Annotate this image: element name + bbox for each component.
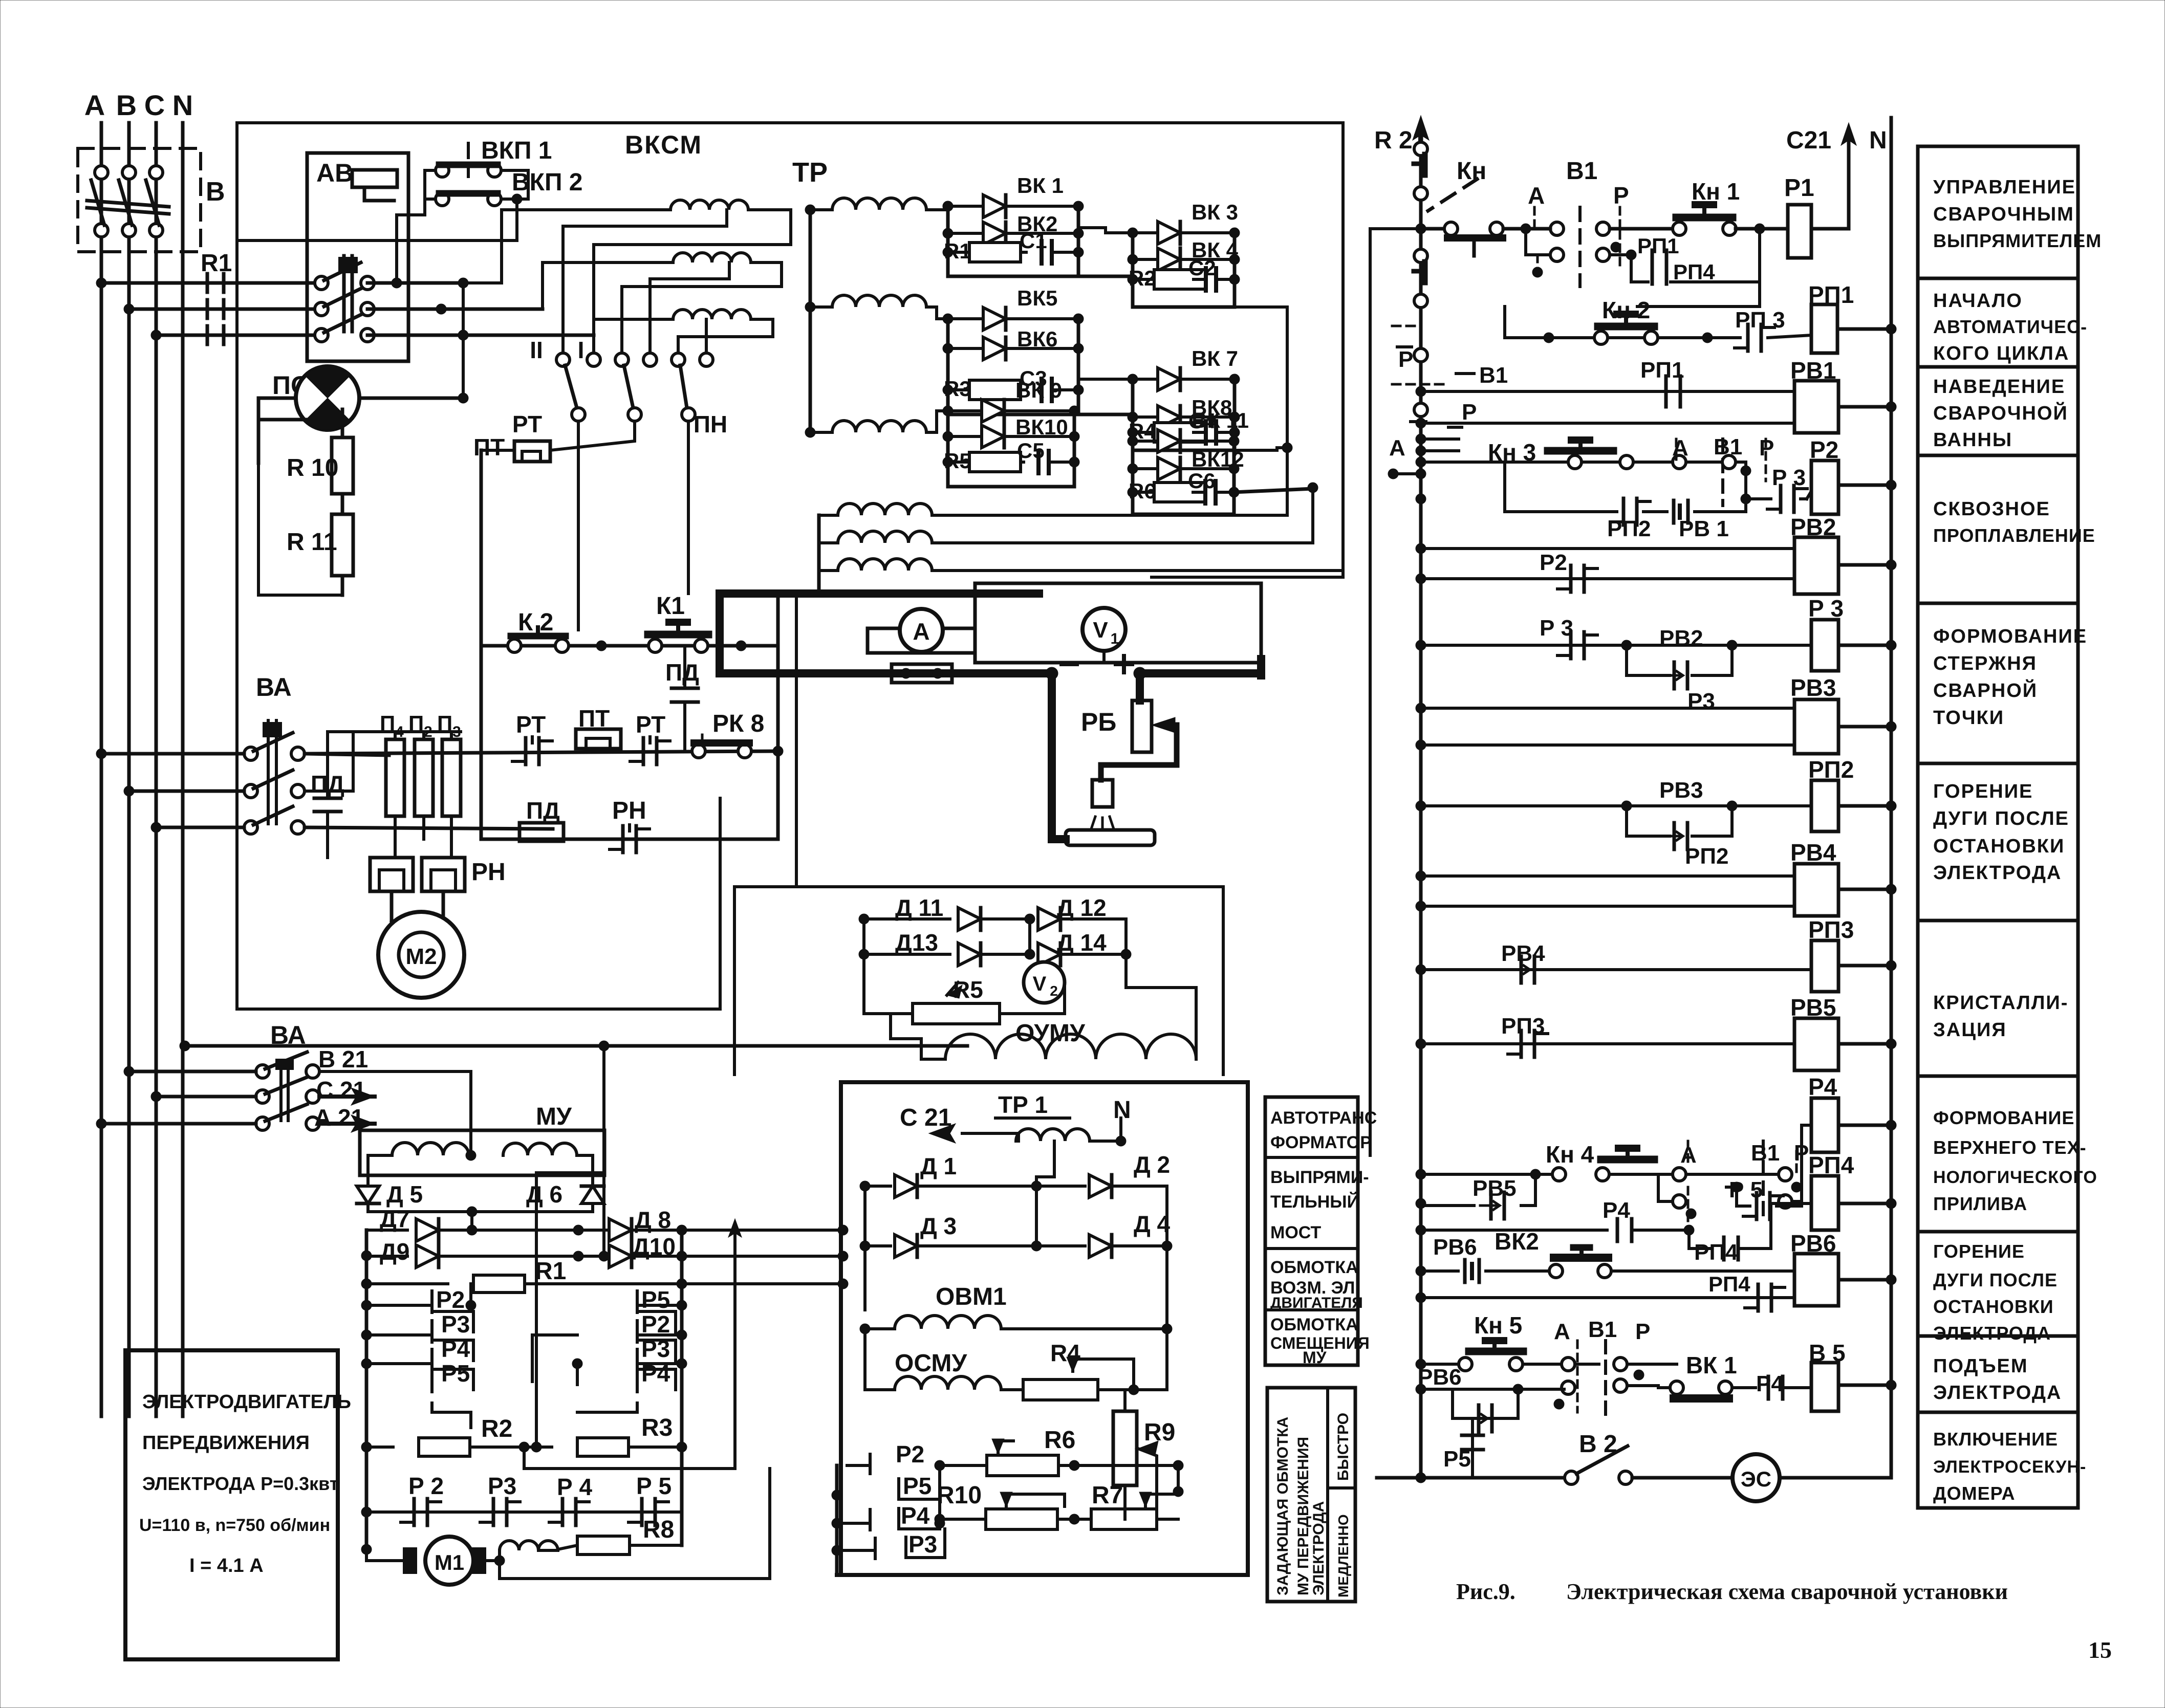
wire B21 to MU tap [319, 1070, 471, 1073]
rung9 to bus [1886, 884, 1896, 894]
wire P1 to N arrow [1811, 227, 1849, 231]
svg-text:R 11: R 11 [287, 529, 337, 556]
wire fuse feed [386, 730, 461, 733]
switch B linkage [87, 201, 169, 207]
wire aux 1 sweep [932, 448, 1287, 515]
contact P lower [1596, 248, 1610, 261]
button Kn2 [1544, 333, 1554, 343]
diode D7 [366, 1229, 407, 1232]
wire phase B vertical [127, 123, 131, 1416]
relay coil P1 [1788, 205, 1811, 258]
relay coil RV1 [1794, 381, 1838, 433]
contact RP2a cap [1622, 498, 1626, 525]
resistor R7 [1091, 1509, 1157, 1529]
switch VA2 poles [256, 1065, 269, 1078]
button VK1 [1670, 1381, 1683, 1394]
resistor R10b [940, 1518, 987, 1521]
contact K1 [648, 639, 662, 652]
svg-text:R3: R3 [641, 1414, 673, 1441]
svg-text:РВ5: РВ5 [1473, 1176, 1517, 1201]
svg-text:А: А [1389, 435, 1405, 461]
switch VKP1 [436, 164, 449, 177]
svg-text:Д 1: Д 1 [920, 1153, 957, 1179]
svg-text:УПРАВЛЕНИЕ: УПРАВЛЕНИЕ [1933, 177, 2076, 198]
svg-text:Р3: Р3 [441, 1311, 470, 1338]
svg-text:ВК 9: ВК 9 [1015, 378, 1062, 402]
svg-text:РВ6: РВ6 [1433, 1235, 1477, 1260]
wire rails ВК 3 [1131, 233, 1135, 307]
bus 1 from phase A [96, 278, 106, 288]
wire aux 2 sweep [932, 487, 1313, 543]
wire motor leads [390, 891, 394, 921]
svg-text:Р 3: Р 3 [1808, 595, 1844, 622]
selector contacts [556, 353, 570, 366]
svg-text:А: А [84, 89, 105, 121]
svg-text:ВК 11: ВК 11 [1192, 408, 1249, 432]
svg-text:Р1: Р1 [1784, 174, 1814, 202]
svg-text:КОГО ЦИКЛА: КОГО ЦИКЛА [1933, 343, 2069, 364]
diode D12 [1038, 908, 1060, 930]
contact RP4b cap [1757, 1284, 1760, 1311]
svg-text:R8: R8 [643, 1516, 674, 1543]
svg-text:ВК 3: ВК 3 [1192, 200, 1238, 224]
rung4 wire [1416, 457, 1426, 467]
resistor R3 [524, 1446, 552, 1449]
svg-text:N: N [1869, 127, 1887, 154]
svg-text:РБ: РБ [1081, 708, 1116, 736]
svg-text:ФОРМАТОР: ФОРМАТОР [1270, 1133, 1372, 1152]
svg-text:ВАННЫ: ВАННЫ [1933, 429, 2012, 451]
wire R9 bottom [1123, 1485, 1127, 1519]
relay coil RV4 [1794, 864, 1838, 916]
svg-text:ВКЛЮЧЕНИЕ: ВКЛЮЧЕНИЕ [1933, 1429, 2058, 1450]
rung11 wire [1416, 1039, 1426, 1049]
diode D6 [581, 1186, 604, 1203]
resistor R1b [366, 1282, 448, 1285]
diode ВК 4 [1133, 258, 1158, 261]
voltmeter V1 [1082, 608, 1125, 651]
svg-text:II: II [530, 337, 543, 363]
svg-text:ЗАДАЮЩАЯ ОБМОТКА: ЗАДАЮЩАЯ ОБМОТКА [1274, 1417, 1291, 1595]
potentiometer R4 [1023, 1379, 1098, 1400]
wire phase A vertical [100, 123, 103, 1416]
bold plus bus [1134, 667, 1146, 680]
svg-text:R6: R6 [1044, 1427, 1075, 1454]
voltmeter V2 [1024, 962, 1065, 1003]
wire to P1 coil [1755, 224, 1765, 234]
svg-text:ДУГИ ПОСЛЕ: ДУГИ ПОСЛЕ [1933, 808, 2069, 829]
rung13 line [1416, 1225, 1426, 1235]
svg-text:2: 2 [1050, 983, 1058, 999]
wire VK interconnects [1078, 275, 1133, 278]
wire D rails [862, 919, 865, 1014]
potentiometer R5 [864, 1012, 911, 1015]
svg-text:ПД: ПД [526, 797, 560, 824]
svg-text:АВТОТРАНС: АВТОТРАНС [1270, 1108, 1377, 1128]
TP aux winding 3 [838, 559, 932, 571]
wire primary 3 taps [678, 319, 773, 353]
relay coil P3 [1811, 620, 1838, 671]
svg-text:15: 15 [2088, 1637, 2112, 1663]
diode ВК 3 [1133, 231, 1158, 234]
diode ВК6 [948, 347, 983, 350]
svg-text:Д 6: Д 6 [526, 1181, 562, 1208]
TP primary winding 3 [673, 310, 751, 319]
P-bar node marker [1392, 325, 1417, 327]
fuse P1 [386, 739, 404, 816]
contact RK8 [692, 744, 705, 758]
relay coil RP2 [1811, 780, 1838, 831]
wire lamp right [359, 397, 463, 400]
svg-text:Р5: Р5 [641, 1286, 670, 1313]
svg-text:ФОРМОВАНИЕ: ФОРМОВАНИЕ [1933, 626, 2087, 647]
TP secondary winding 1 [832, 198, 926, 210]
svg-text:А: А [1554, 1319, 1570, 1344]
wire R2 junction down [524, 1447, 735, 1469]
svg-text:Д 14: Д 14 [1057, 929, 1107, 956]
bus 3 from phase C [151, 330, 161, 340]
svg-text:ПТ: ПТ [473, 434, 505, 461]
svg-text:ОБМОТКА: ОБМОТКА [1270, 1258, 1358, 1277]
wire K row3 [481, 838, 778, 841]
workpiece [1066, 830, 1155, 845]
svg-text:Кн: Кн [1457, 158, 1486, 185]
contact A1 lower [1526, 229, 1550, 255]
svg-text:Д7: Д7 [380, 1206, 409, 1232]
wire RP4 branch [1637, 305, 1760, 308]
svg-text:МУ: МУ [536, 1103, 572, 1130]
svg-text:ОВМ1: ОВМ1 [936, 1283, 1007, 1310]
contact stack left brackets [430, 1291, 434, 1312]
bold work lead [1052, 673, 1066, 839]
svg-text:ТР: ТР [792, 157, 828, 188]
text column outer box [1918, 146, 2078, 1508]
svg-text:К 2: К 2 [518, 609, 553, 636]
ladder left rail R21 line [1419, 128, 1423, 1478]
svg-text:Р 5: Р 5 [636, 1473, 672, 1499]
svg-text:V: V [1093, 618, 1108, 643]
arrow C21 [319, 1094, 375, 1099]
OVM1 winding [865, 1327, 895, 1330]
wire VK right risers [1233, 279, 1237, 307]
svg-text:СВАРНОЙ: СВАРНОЙ [1933, 678, 2038, 702]
svg-text:R2: R2 [481, 1415, 512, 1442]
rung11 to bus [1886, 1039, 1896, 1049]
MU winding right [503, 1143, 577, 1155]
svg-text:ПРИЛИВА: ПРИЛИВА [1933, 1193, 2027, 1214]
svg-text:С 21: С 21 [900, 1104, 951, 1131]
wire neutral N vertical [181, 123, 185, 1416]
wire stack rows left [366, 1304, 432, 1307]
rung8 to bus [1886, 801, 1896, 811]
wire riser to primary 2 [441, 262, 673, 309]
contact P4 cap [561, 1499, 565, 1525]
svg-text:РВ3: РВ3 [1659, 778, 1703, 803]
diode D5 [357, 1186, 379, 1203]
button Kn1 [1673, 222, 1686, 235]
svg-text:БЫСТРО: БЫСТРО [1335, 1413, 1352, 1481]
svg-text:Р3: Р3 [908, 1531, 937, 1558]
svg-text:Кн 4: Кн 4 [1546, 1141, 1594, 1168]
svg-text:А: А [1528, 182, 1545, 209]
svg-text:МУ: МУ [1303, 1348, 1327, 1367]
resistor R6 [940, 1464, 987, 1467]
VA2 bus line [180, 1041, 190, 1051]
wire riser to primary 1 [463, 210, 670, 283]
rung4 to bus [1886, 480, 1896, 490]
relay coil P2 [1811, 461, 1838, 514]
diode D10 [578, 1255, 609, 1258]
wire VA bus riser right [602, 1046, 605, 1256]
wire K right riser [776, 594, 780, 839]
wire VA1 out row3 [305, 827, 553, 829]
svg-text:Р2: Р2 [896, 1441, 924, 1468]
rung7 upper wire [1416, 703, 1426, 713]
contact P2 cap [413, 1499, 416, 1525]
button Kn3 [1568, 455, 1582, 469]
contact P5a cap [1755, 1193, 1759, 1219]
M1 winding [498, 1550, 501, 1561]
AV contactor poles [315, 276, 328, 290]
contact RP1b [1664, 376, 1668, 407]
diode D14 [1038, 943, 1060, 966]
rung5 upper wire [1416, 543, 1426, 554]
wire R4 to R9 [1134, 1388, 1167, 1391]
svg-text:РП2: РП2 [1685, 844, 1728, 869]
VKSM box outline [237, 123, 1343, 788]
svg-text:РН: РН [612, 797, 646, 824]
svg-text:М2: М2 [405, 944, 437, 969]
switch B2 [1565, 1471, 1578, 1484]
svg-text:ЭЛЕКТРОСЕКУН-: ЭЛЕКТРОСЕКУН- [1933, 1457, 2086, 1477]
D11 box outline [734, 887, 1223, 1075]
R10 box enclosure wires [258, 463, 342, 595]
bold weld bus top [720, 589, 1039, 598]
text column dividers [1918, 277, 2078, 280]
rung10 wire [1416, 965, 1426, 975]
svg-text:РП4: РП4 [1694, 1240, 1738, 1265]
resistor R11 [332, 514, 353, 576]
switch B dashed enclosure [78, 148, 201, 252]
svg-text:В: В [116, 89, 137, 121]
wire rails ВК 9 [946, 411, 950, 487]
svg-text:Р 2: Р 2 [408, 1473, 444, 1499]
svg-text:С2: С2 [1188, 256, 1216, 280]
contact RV6b loop [1453, 1389, 1518, 1418]
vertical annotation box [1267, 1388, 1355, 1602]
thermal PT box [514, 441, 550, 462]
wire P5b drop [1471, 1418, 1474, 1478]
motor M2 [378, 912, 464, 998]
svg-text:Р2: Р2 [1540, 550, 1567, 575]
svg-text:РН: РН [471, 859, 506, 886]
svg-text:КРИСТАЛЛИ-: КРИСТАЛЛИ- [1933, 992, 2068, 1014]
wire VKP left riser [423, 170, 426, 199]
wire bridge to center box [682, 1229, 841, 1232]
svg-text:ПОДЪЕМ: ПОДЪЕМ [1933, 1355, 2028, 1377]
AV box [307, 153, 408, 361]
svg-text:РП4: РП4 [1708, 1272, 1750, 1296]
wire aux left rail [819, 514, 838, 517]
wire secondary 2 to VK5 [926, 307, 948, 319]
rung6 to bus [1886, 640, 1896, 650]
svg-text:ВЕРХНЕГО ТЕХ-: ВЕРХНЕГО ТЕХ- [1933, 1137, 2087, 1158]
svg-text:РП1: РП1 [1637, 234, 1679, 258]
svg-text:I = 4.1 А: I = 4.1 А [189, 1555, 264, 1576]
svg-text:РТ: РТ [516, 711, 546, 738]
svg-text:С: С [144, 89, 165, 121]
svg-text:К1: К1 [656, 593, 685, 620]
wire V2 connections [1023, 1012, 1065, 1015]
contact RP3a cap [1746, 324, 1750, 351]
rung4 lower branch [1416, 494, 1426, 504]
annotation stack box [1265, 1097, 1358, 1365]
svg-text:В: В [206, 177, 225, 207]
ladder inner frame wire [1369, 229, 1372, 1155]
MU box [360, 1130, 604, 1175]
rung3 lower wire [1416, 418, 1426, 428]
TR1 winding [1016, 1129, 1090, 1141]
rung15 to bus [1886, 1380, 1896, 1390]
diode ВК 1 [948, 205, 983, 208]
svg-text:ВК10: ВК10 [1015, 415, 1068, 439]
contact Kn [1444, 222, 1458, 235]
rung2 wire [1505, 336, 1740, 339]
relay coil RV2 [1794, 537, 1838, 594]
svg-text:ДВИГАТЕЛЯ: ДВИГАТЕЛЯ [1270, 1295, 1363, 1311]
wire box right edge [1246, 1082, 1250, 1575]
resistor R10 [332, 437, 353, 494]
svg-text:ТОЧКИ: ТОЧКИ [1933, 707, 2004, 729]
A node circle [1414, 403, 1427, 417]
svg-text:ПН: ПН [694, 411, 727, 437]
svg-text:Р 4: Р 4 [557, 1474, 592, 1500]
svg-text:ВКСМ: ВКСМ [625, 130, 702, 159]
wire D5 D6 join [366, 1203, 370, 1212]
svg-text:В 21: В 21 [318, 1046, 368, 1072]
relay coil RP1 [1811, 304, 1837, 353]
wire rails ВК 11 [1131, 441, 1135, 514]
svg-text:РТ: РТ [512, 411, 542, 437]
wire rails ВК 7 [1131, 379, 1135, 450]
svg-text:ПЕРЕДВИЖЕНИЯ: ПЕРЕДВИЖЕНИЯ [142, 1432, 310, 1454]
relay coil V5 [1811, 1363, 1838, 1411]
svg-text:Р5: Р5 [903, 1473, 932, 1499]
svg-text:Д 12: Д 12 [1057, 894, 1107, 921]
wire VKP2 to bus [462, 283, 465, 398]
svg-text:ВА: ВА [270, 1021, 306, 1049]
electrode [1092, 780, 1113, 807]
svg-text:Электрическая схема сварочной: Электрическая схема сварочной установки [1566, 1579, 2008, 1604]
ammeter A wings [868, 628, 975, 653]
svg-text:Д9: Д9 [380, 1238, 409, 1265]
contact RV3a parallel [1621, 801, 1632, 811]
contact P3 cap [492, 1499, 495, 1525]
wire VA1 feeds [96, 749, 106, 759]
rung10 to bus [1886, 960, 1896, 971]
svg-text:ОСТАНОВКИ: ОСТАНОВКИ [1933, 836, 2065, 857]
TP secondary winding 2 [832, 295, 926, 307]
svg-text:РК 8: РК 8 [712, 710, 764, 737]
rung1 wire [1416, 224, 1426, 234]
contact P5c bracket [899, 1465, 940, 1499]
MU winding left [392, 1143, 469, 1155]
svg-text:В1: В1 [1751, 1141, 1780, 1166]
svg-text:Р3: Р3 [488, 1473, 516, 1499]
AV linkage [342, 256, 346, 332]
svg-text:ДУГИ ПОСЛЕ: ДУГИ ПОСЛЕ [1933, 1269, 2058, 1290]
electroseconds meter ES [1733, 1454, 1780, 1501]
svg-text:Р: Р [1462, 400, 1477, 425]
wire primary 2 taps [622, 262, 782, 353]
wire selector outputs [577, 421, 580, 630]
svg-text:Р 3: Р 3 [1772, 465, 1806, 490]
resistor R2 [366, 1446, 393, 1449]
contact RV6a capH [1463, 1260, 1467, 1282]
rung5 to bus [1886, 560, 1896, 570]
diode D2 [1036, 1185, 1085, 1188]
OSMU winding [865, 1388, 895, 1391]
wire rails ВК5 [946, 319, 950, 414]
wire phase C vertical [155, 123, 158, 1416]
wire stack row2 [832, 1490, 842, 1500]
wire AV outputs [392, 278, 402, 288]
diode D8 [609, 1219, 632, 1241]
diode ВК 9 [948, 409, 982, 412]
contact RV2a parallel [1621, 640, 1632, 650]
svg-text:ЭЛЕКТРОДА Р=0.3квт: ЭЛЕКТРОДА Р=0.3квт [142, 1473, 338, 1494]
wire stack bottoms [432, 1403, 471, 1428]
svg-text:СТЕРЖНЯ: СТЕРЖНЯ [1933, 653, 2037, 674]
contact PD2 [326, 732, 329, 798]
svg-text:ВК 1: ВК 1 [1017, 173, 1064, 198]
svg-text:СКВОЗНОЕ: СКВОЗНОЕ [1933, 498, 2050, 520]
svg-text:РВ4: РВ4 [1790, 839, 1836, 866]
Kn dashed blade [1428, 179, 1477, 211]
wire secondary left rail [809, 210, 812, 432]
motor M1 [366, 1549, 404, 1561]
rung2 to bus [1886, 324, 1896, 334]
rung14 to bus [1886, 1275, 1896, 1285]
wire secondary 3 to VK9 [926, 411, 948, 432]
diode ВК12 [1133, 467, 1158, 470]
rung3 upper wire [1416, 386, 1426, 397]
wire secondary 1 to VK1 [926, 208, 948, 211]
R21 contacts [1414, 142, 1427, 156]
switch VA1 poles [244, 747, 257, 760]
svg-text:РВ3: РВ3 [1790, 674, 1836, 701]
svg-text:ТР 1: ТР 1 [998, 1091, 1048, 1118]
wire VA1 out row1 [305, 754, 389, 755]
svg-text:ЭЛЕКТРОДА: ЭЛЕКТРОДА [1310, 1501, 1327, 1595]
diode D11 [864, 917, 950, 921]
wire right rail up arrow [733, 1226, 737, 1469]
wire bridge right rail [680, 1230, 684, 1545]
svg-text:ТЕЛЬНЫЙ: ТЕЛЬНЫЙ [1270, 1192, 1359, 1212]
minus sign [1062, 662, 1077, 666]
svg-text:ВЫПРЯМИ-: ВЫПРЯМИ- [1270, 1168, 1369, 1187]
svg-text:ЗАЦИЯ: ЗАЦИЯ [1933, 1019, 2007, 1041]
TP secondary winding 3 [832, 421, 926, 432]
contact P2a cap [1569, 565, 1573, 592]
contact Pc [1779, 1168, 1792, 1181]
svg-text:СВАРОЧНОЙ: СВАРОЧНОЙ [1933, 401, 2068, 424]
resistor R8 [558, 1545, 577, 1549]
svg-text:Кн 5: Кн 5 [1474, 1312, 1522, 1339]
bold weld bus lower [720, 669, 1052, 677]
wire V1 leads [1102, 651, 1106, 661]
wire M1 out [485, 1559, 500, 1562]
